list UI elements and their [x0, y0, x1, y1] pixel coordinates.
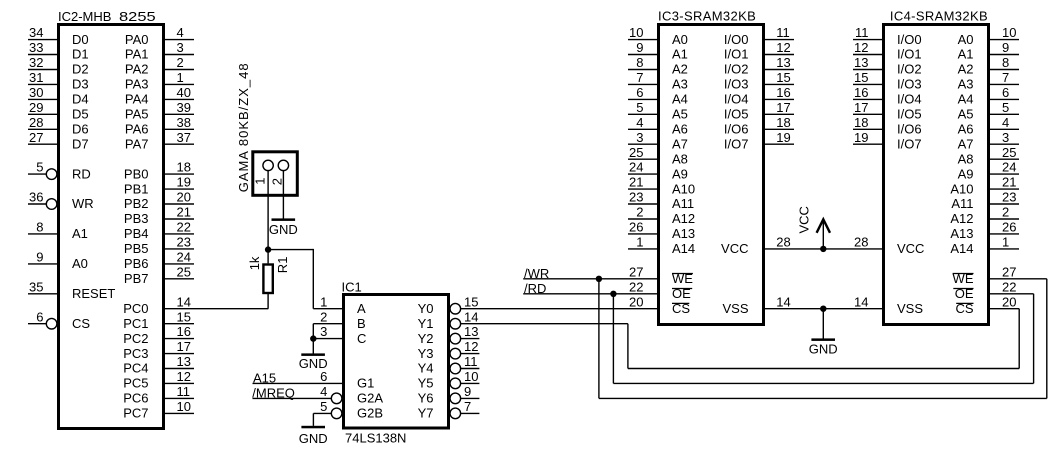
svg-text:1: 1 [177, 70, 184, 85]
svg-text:GAMA 80KB/ZX_48: GAMA 80KB/ZX_48 [236, 62, 251, 192]
IC4 pin 16 (I/O4) [853, 85, 922, 107]
IC3 pin 4 (A6) [628, 115, 688, 137]
svg-text:3: 3 [177, 40, 184, 55]
svg-text:32: 32 [29, 55, 43, 70]
IC4 label VCC pin 28 [854, 235, 924, 257]
IC1 pin 1 (A) [313, 294, 366, 316]
IC3 pin 8 (A2) [628, 55, 688, 77]
svg-text:A12: A12 [672, 211, 695, 226]
svg-text:I/O4: I/O4 [724, 92, 749, 107]
connector X1 pin 2 circle [278, 160, 288, 170]
IC4 pin 1 (A14) [950, 235, 1019, 257]
svg-text:GND: GND [269, 222, 298, 237]
IC1 pin 4 (G2A) wire from /MREQ with bubble [253, 384, 384, 406]
IC3 pin 13 (I/O2) [724, 55, 794, 77]
svg-text:36: 36 [29, 190, 43, 205]
svg-text:B: B [357, 316, 366, 331]
resistor R1 body [263, 265, 272, 294]
svg-text:D6: D6 [72, 122, 89, 137]
svg-text:A7: A7 [672, 136, 688, 151]
IC3 pin 10 (A0) [628, 25, 688, 47]
IC3 pin 20 (CS) number and label [629, 294, 690, 316]
IC3 pin 5 (A5) [628, 100, 688, 122]
svg-text:8: 8 [636, 55, 643, 70]
junction dot on /RD net [610, 291, 616, 297]
IC3 pin 2 (A12) [628, 205, 695, 227]
IC2 pin 9 (A0) [28, 250, 88, 272]
svg-text:6: 6 [320, 369, 327, 384]
svg-text:PC1: PC1 [123, 316, 148, 331]
svg-text:RD: RD [72, 166, 91, 181]
wire /RD net to IC3 OE [523, 293, 658, 295]
IC3 pin 23 (A11) [628, 190, 694, 212]
IC2 pin 12 (PC5) [123, 369, 194, 391]
wire R1 bottom to PC0 net [267, 294, 269, 309]
svg-text:6: 6 [36, 309, 43, 324]
svg-text:A10: A10 [672, 181, 695, 196]
svg-text:31: 31 [29, 70, 43, 85]
svg-text:2: 2 [270, 178, 285, 185]
IC3 pin 6 (A4) [628, 85, 688, 107]
svg-text:11: 11 [464, 354, 478, 369]
svg-text:33: 33 [29, 40, 43, 55]
svg-text:A13: A13 [672, 226, 695, 241]
svg-text:7: 7 [1002, 70, 1009, 85]
svg-text:I/O6: I/O6 [897, 122, 922, 137]
svg-text:G1: G1 [357, 376, 374, 391]
svg-text:1k: 1k [247, 256, 262, 270]
svg-text:A12: A12 [950, 211, 973, 226]
wire VSS IC3 to IC4 [764, 308, 883, 310]
svg-text:2: 2 [177, 55, 184, 70]
wire node A to corner above IC1 pin A [268, 249, 313, 251]
svg-text:17: 17 [776, 100, 790, 115]
svg-text:24: 24 [629, 160, 643, 175]
svg-text:Y5: Y5 [418, 376, 434, 391]
svg-text:PA0: PA0 [125, 32, 149, 47]
svg-text:40: 40 [177, 85, 191, 100]
svg-text:Y4: Y4 [418, 361, 434, 376]
IC2 pin 14 (PC0) wire to R1 [123, 294, 268, 316]
IC3 pin 17 (I/O5) [724, 100, 794, 122]
svg-text:A13: A13 [950, 226, 973, 241]
svg-text:14: 14 [177, 294, 191, 309]
IC U3: IC3 SRAM32KB body [659, 25, 764, 325]
IC U4: IC4 SRAM32KB body [884, 25, 989, 325]
wire /RD riser to IC4 OE [1033, 294, 1035, 384]
IC3 pin 16 (I/O4) [724, 85, 794, 107]
svg-text:12: 12 [854, 40, 868, 55]
svg-text:Y2: Y2 [418, 331, 434, 346]
svg-text:12: 12 [776, 40, 790, 55]
IC2 pin 25 (PB7) [124, 264, 194, 286]
svg-text:PC7: PC7 [123, 406, 148, 421]
IC2 pin 8 (A1) [28, 220, 88, 242]
svg-text:I/O6: I/O6 [724, 122, 749, 137]
svg-text:A0: A0 [72, 256, 88, 271]
svg-text:25: 25 [1002, 145, 1016, 160]
wire IC1 pin G2B down to ground [312, 413, 314, 426]
svg-text:11: 11 [177, 384, 191, 399]
svg-text:Y6: Y6 [418, 391, 434, 406]
IC2 pin 37 (PA7) [125, 130, 194, 152]
svg-text:4: 4 [636, 115, 643, 130]
svg-text:10: 10 [464, 369, 478, 384]
IC3 pin 24 (A9) [628, 160, 688, 182]
svg-text:11: 11 [855, 25, 869, 40]
svg-text:D0: D0 [72, 32, 89, 47]
svg-text:A3: A3 [958, 77, 974, 92]
IC2 pin 4 (PA0) [125, 25, 194, 47]
svg-text:A11: A11 [672, 196, 694, 211]
IC2 pin 28 (D6) [28, 115, 89, 137]
svg-text:IC3-SRAM32KB: IC3-SRAM32KB [658, 8, 756, 23]
svg-text:2: 2 [636, 205, 643, 220]
IC4 pin 18 (I/O6) [853, 115, 922, 137]
svg-text:A4: A4 [672, 92, 688, 107]
IC2 pin 19 (PB1) [124, 175, 194, 197]
svg-text:IC2-MHB: IC2-MHB [58, 9, 111, 24]
wire VCC IC3 to IC4 [764, 248, 883, 250]
svg-text:18: 18 [776, 115, 790, 130]
junction dot on /WR net [596, 276, 602, 282]
svg-text:PB0: PB0 [124, 166, 149, 181]
IC U2: IC2 MHB 8255 body [59, 25, 164, 429]
wire /RD vertical drop [612, 294, 614, 384]
wire corner down to IC1 pin A row [312, 249, 314, 309]
ground bar under IC1 G2B [301, 426, 325, 429]
IC4 pin 22 (OE) number and label [953, 279, 1016, 301]
IC2 pin 6 (CS) [28, 309, 90, 331]
IC3 pin 26 (A13) [628, 220, 695, 242]
svg-text:PA1: PA1 [125, 47, 149, 62]
svg-text:27: 27 [29, 130, 43, 145]
wire Y1 vertical drop [627, 324, 629, 369]
svg-text:14: 14 [776, 294, 790, 309]
svg-text:27: 27 [1002, 264, 1016, 279]
IC2 pin 13 (PC4) [123, 354, 194, 376]
svg-text:1: 1 [1002, 235, 1009, 250]
svg-text:8: 8 [36, 220, 43, 235]
node A junction dot (GAMA/R1/IC1-A net) [265, 246, 271, 252]
svg-text:GND: GND [299, 431, 328, 446]
svg-text:21: 21 [1002, 175, 1016, 190]
svg-text:22: 22 [177, 220, 191, 235]
IC4 pin 25 (A8) [958, 145, 1019, 167]
svg-text:19: 19 [177, 175, 191, 190]
IC2 pin 21 (PB3) [124, 205, 194, 227]
svg-text:28: 28 [776, 235, 790, 250]
svg-text:13: 13 [177, 354, 191, 369]
svg-text:6: 6 [636, 85, 643, 100]
IC4 pin 3 (A7) [958, 130, 1019, 152]
wire /WR net to IC3 WE [523, 278, 658, 280]
IC2 pin 31 (D3) [28, 70, 89, 92]
svg-text:19: 19 [776, 130, 790, 145]
IC1 pin 6 (G1) wire from A15 [253, 369, 375, 391]
svg-text:14: 14 [854, 294, 868, 309]
IC3 pin 9 (A1) [628, 40, 688, 62]
svg-text:PB6: PB6 [124, 256, 149, 271]
IC2 pin 5 (RD) [28, 160, 91, 182]
IC4 pin 4 (A6) [958, 115, 1019, 137]
IC2 pin 29 (D5) [28, 100, 89, 122]
svg-text:PB2: PB2 [124, 196, 149, 211]
svg-text:30: 30 [29, 85, 43, 100]
svg-text:35: 35 [29, 279, 43, 294]
IC3 pin 18 (I/O6) [724, 115, 794, 137]
svg-text:5: 5 [1002, 100, 1009, 115]
IC1 pin 7 (Y7) with bubble [418, 399, 480, 421]
IC4 pin 11 (I/O0) [853, 25, 922, 47]
svg-text:G2A: G2A [357, 391, 383, 406]
IC4 pin 27 (WE) number and label [953, 264, 1017, 286]
svg-text:9: 9 [1002, 40, 1009, 55]
IC2 pin 30 (D4) [28, 85, 89, 107]
IC2 pin 32 (D2) [28, 55, 89, 77]
svg-text:A9: A9 [958, 166, 974, 181]
svg-text:G2B: G2B [357, 406, 383, 421]
svg-text:10: 10 [629, 25, 643, 40]
svg-text:A6: A6 [672, 122, 688, 137]
resistor R1 top lead [267, 250, 269, 264]
svg-text:Y1: Y1 [418, 316, 434, 331]
IC3 pin 25 (A8) [628, 145, 688, 167]
IC4 pin 19 (I/O7) [853, 130, 922, 152]
svg-text:1: 1 [253, 178, 268, 185]
wire /WR riser to IC4 WE [1046, 279, 1048, 399]
svg-text:PB5: PB5 [124, 241, 149, 256]
svg-text:9: 9 [636, 40, 643, 55]
wire X1 pin2 to ground [282, 171, 284, 219]
svg-text:PA5: PA5 [125, 107, 149, 122]
svg-text:26: 26 [1002, 220, 1016, 235]
svg-text:23: 23 [177, 235, 191, 250]
IC2 pin 36 (WR) [28, 190, 94, 212]
svg-text:C: C [357, 331, 366, 346]
svg-text:21: 21 [629, 175, 643, 190]
svg-text:23: 23 [629, 190, 643, 205]
svg-text:I/O7: I/O7 [897, 136, 922, 151]
svg-text:PA2: PA2 [125, 62, 149, 77]
svg-text:22: 22 [629, 279, 643, 294]
svg-text:A: A [357, 301, 366, 316]
svg-text:2: 2 [320, 309, 327, 324]
svg-text:14: 14 [464, 309, 478, 324]
svg-text:CS: CS [72, 316, 90, 331]
svg-text:WR: WR [72, 196, 94, 211]
IC4 label VSS pin 14 [854, 294, 923, 316]
IC4 pin 20 (CS) number and label [955, 294, 1016, 316]
wire Y1 riser to IC4 CS [1018, 309, 1020, 369]
IC2 pin 11 (PC6) [123, 384, 194, 406]
IC3 pin 3 (A7) [628, 130, 688, 152]
ground bar under X1 [272, 218, 296, 221]
svg-text:D4: D4 [72, 92, 89, 107]
svg-text:28: 28 [29, 115, 43, 130]
svg-text:VCC: VCC [796, 206, 811, 233]
svg-text:GND: GND [809, 342, 838, 357]
svg-text:PC0: PC0 [123, 301, 148, 316]
IC3 pin 27 (WE) number and label [629, 264, 693, 286]
svg-text:A5: A5 [672, 107, 688, 122]
IC1 pin 14 (Y1) with bubble [418, 309, 628, 331]
svg-text:3: 3 [320, 324, 327, 339]
svg-text:4: 4 [177, 25, 184, 40]
IC4 pin 5 (A5) [958, 100, 1019, 122]
svg-text:I/O1: I/O1 [897, 47, 922, 62]
IC2 pin 33 (D1) [28, 40, 89, 62]
wire into IC4 WE pin 27 [989, 278, 1047, 280]
svg-text:10: 10 [1002, 25, 1016, 40]
svg-text:15: 15 [464, 294, 478, 309]
svg-text:8255: 8255 [119, 11, 156, 25]
svg-text:12: 12 [177, 369, 191, 384]
IC4 pin 21 (A10) [950, 175, 1019, 197]
svg-text:Y0: Y0 [418, 301, 434, 316]
IC4 pin 13 (I/O2) [853, 55, 922, 77]
svg-text:Y3: Y3 [418, 346, 434, 361]
IC4 pin 23 (A11) [951, 190, 1019, 212]
VCC symbol arrow [817, 219, 830, 249]
svg-text:A7: A7 [958, 136, 974, 151]
svg-text:A2: A2 [672, 62, 688, 77]
svg-text:18: 18 [854, 115, 868, 130]
svg-text:9: 9 [464, 384, 471, 399]
svg-text:VCC: VCC [897, 241, 924, 256]
svg-text:A0: A0 [958, 32, 974, 47]
svg-text:PA4: PA4 [125, 92, 149, 107]
svg-text:7: 7 [464, 399, 471, 414]
IC3 label VCC pin 28 [721, 235, 791, 257]
svg-text:I/O7: I/O7 [724, 136, 749, 151]
wire into IC4 OE pin 22 [989, 293, 1034, 295]
ground bar under IC1 B/C [301, 353, 325, 356]
svg-text:11: 11 [776, 25, 790, 40]
svg-text:7: 7 [636, 70, 643, 85]
svg-text:A5: A5 [958, 107, 974, 122]
svg-text:R1: R1 [275, 257, 290, 274]
IC4 pin 12 (I/O1) [853, 40, 922, 62]
svg-text:15: 15 [177, 309, 191, 324]
svg-text:25: 25 [629, 145, 643, 160]
IC4 pin 9 (A1) [958, 40, 1019, 62]
svg-text:I/O0: I/O0 [897, 32, 922, 47]
IC2 pin 27 (D7) [28, 130, 89, 152]
IC4 pin 17 (I/O5) [853, 100, 922, 122]
svg-text:I/O0: I/O0 [724, 32, 749, 47]
svg-text:A14: A14 [950, 241, 973, 256]
wire /WR bottom run to right [599, 397, 1047, 399]
svg-text:A1: A1 [672, 47, 688, 62]
svg-text:A6: A6 [958, 122, 974, 137]
svg-text:23: 23 [1002, 190, 1016, 205]
svg-text:22: 22 [1002, 279, 1016, 294]
IC2 pin 24 (PB6) [124, 250, 194, 272]
svg-text:IC4-SRAM32KB: IC4-SRAM32KB [890, 8, 988, 23]
svg-text:20: 20 [1002, 294, 1016, 309]
node junction dot on IC1 pin C wire [310, 335, 316, 341]
wire VSS down to ground [822, 309, 824, 339]
IC1 pin 15 (Y0) with bubble [418, 294, 658, 316]
IC2 pin 38 (PA6) [125, 115, 194, 137]
IC1 pin 3 (C) [313, 324, 366, 346]
svg-text:16: 16 [854, 85, 868, 100]
IC2 pin 3 (PA1) [125, 40, 194, 62]
IC2 pin 40 (PA4) [125, 85, 194, 107]
svg-text:VSS: VSS [722, 301, 748, 316]
IC3 pin 22 (OE) number and label [629, 279, 692, 301]
svg-text:A11: A11 [951, 196, 973, 211]
svg-text:13: 13 [464, 324, 478, 339]
svg-text:I/O5: I/O5 [724, 107, 749, 122]
IC2 pin 39 (PA5) [125, 100, 194, 122]
svg-text:27: 27 [629, 264, 643, 279]
svg-text:25: 25 [177, 264, 191, 279]
svg-text:21: 21 [177, 205, 191, 220]
svg-text:PC3: PC3 [123, 346, 148, 361]
svg-text:20: 20 [629, 294, 643, 309]
svg-text:PA7: PA7 [125, 136, 149, 151]
svg-text:16: 16 [776, 85, 790, 100]
svg-text:19: 19 [854, 130, 868, 145]
svg-text:5: 5 [320, 399, 327, 414]
svg-text:2: 2 [1002, 205, 1009, 220]
svg-text:PA6: PA6 [125, 122, 149, 137]
svg-text:17: 17 [177, 339, 191, 354]
IC2 pin 1 (PA3) [125, 70, 194, 92]
svg-text:A0: A0 [672, 32, 688, 47]
wire X1 pin1 to node A [267, 171, 269, 250]
svg-text:15: 15 [776, 70, 790, 85]
IC4 pin 8 (A2) [958, 55, 1019, 77]
svg-text:26: 26 [629, 220, 643, 235]
svg-text:5: 5 [636, 100, 643, 115]
svg-text:I/O5: I/O5 [897, 107, 922, 122]
svg-text:13: 13 [776, 55, 790, 70]
IC1 pin 13 (Y2) with bubble [418, 324, 480, 346]
svg-text:74LS138N: 74LS138N [345, 431, 406, 446]
svg-text:IC1: IC1 [342, 280, 362, 295]
IC1 pin 10 (Y5) with bubble [418, 369, 480, 391]
svg-text:PC4: PC4 [123, 361, 148, 376]
svg-text:A14: A14 [672, 241, 695, 256]
svg-text:12: 12 [464, 339, 478, 354]
IC3 pin 1 (A14) [628, 235, 695, 257]
IC3 label VSS pin 14 [722, 294, 790, 316]
svg-text:24: 24 [1002, 160, 1016, 175]
IC3 pin 11 (I/O0) [724, 25, 794, 47]
IC2 pin 10 (PC7) [123, 399, 194, 421]
IC3 pin 15 (I/O3) [724, 70, 794, 92]
wire Y1 bottom run to right [628, 368, 1019, 370]
wire into IC4 CS pin 20 [989, 308, 1019, 310]
svg-text:A10: A10 [950, 181, 973, 196]
svg-text:D1: D1 [72, 47, 89, 62]
IC1 pin 11 (Y4) with bubble [418, 354, 480, 376]
svg-text:I/O3: I/O3 [724, 77, 749, 92]
IC1 pin 5 (G2B) with bubble [313, 399, 383, 421]
svg-text:RESET: RESET [72, 286, 115, 301]
IC2 pin 2 (PA2) [125, 55, 194, 77]
svg-text:6: 6 [1002, 85, 1009, 100]
wire IC1 pin B down to pin C and ground [312, 324, 314, 354]
svg-text:A8: A8 [958, 151, 974, 166]
svg-text:9: 9 [36, 250, 43, 265]
IC4 pin 2 (A12) [950, 205, 1019, 227]
svg-text:4: 4 [1002, 115, 1009, 130]
IC2 pin 20 (PB2) [124, 190, 194, 212]
